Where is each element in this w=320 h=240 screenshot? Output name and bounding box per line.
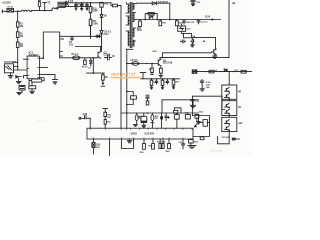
resistor R54 — [200, 137, 204, 140]
jumper J1 — [175, 108, 181, 113]
wire AC input — [2, 10, 7, 12]
transistor Q21 — [225, 94, 230, 99]
svg-text:R14: R14 — [104, 33, 109, 36]
ground — [30, 91, 35, 93]
diode arrow — [195, 122, 199, 126]
wire lower rail — [65, 6, 89, 8]
wire drop to array — [228, 72, 230, 85]
IC3 pin ticks — [90, 128, 192, 139]
svg-text:R4 1.2: R4 1.2 — [72, 53, 80, 56]
node Q — [151, 63, 153, 65]
wire sub-box top — [192, 96, 224, 109]
capacitor C16 — [166, 79, 168, 84]
wire corner feedback — [43, 32, 59, 58]
fuse FU1 — [7, 9, 14, 12]
capacitor C53 — [190, 100, 195, 108]
resistor R2 — [16, 32, 19, 38]
diode D11 — [224, 69, 227, 72]
svg-text:2SC5148: 2SC5148 — [163, 62, 173, 65]
resistor R17 — [173, 79, 175, 80]
resistor R26 — [160, 66, 162, 68]
wire B+ horizontal to Q2 — [160, 57, 229, 59]
diode D6 — [100, 15, 103, 31]
resistor R3 — [16, 42, 19, 47]
posistor cross — [65, 2, 69, 7]
capacitor C41 — [182, 144, 185, 149]
svg-text:+B: +B — [232, 1, 236, 5]
diode D12 box — [178, 26, 186, 31]
wire drop — [92, 58, 94, 73]
svg-text:+B2: +B2 — [238, 122, 243, 125]
transformer bottom edge — [126, 48, 133, 50]
node X — [95, 36, 96, 37]
ground bar left — [127, 139, 132, 143]
fusible resistor R61 — [151, 113, 153, 115]
capacitor C30 — [81, 116, 90, 119]
svg-text:+C20 R20: +C20 R20 — [144, 133, 155, 135]
transformer T1 primary winding — [128, 4, 129, 46]
resistor R10 — [89, 6, 92, 12]
pin 6 — [39, 74, 55, 76]
watermark orange line — [111, 77, 142, 79]
resistor R35 — [195, 114, 199, 118]
wire RC rail — [141, 78, 180, 80]
transistor Q24 — [225, 120, 230, 125]
wire — [228, 99, 230, 100]
node E — [144, 19, 146, 21]
resistor R25 — [151, 64, 153, 69]
svg-text:R43 R44: R43 R44 — [157, 141, 166, 144]
transistor Q2 — [158, 59, 161, 66]
resistor R41 — [143, 144, 146, 150]
svg-text:R5 10: R5 10 — [82, 67, 89, 69]
ground — [150, 85, 152, 89]
wire IC bottom pin — [28, 79, 30, 86]
resistor R34 — [185, 115, 190, 119]
wire top link — [111, 3, 113, 6]
transistor Q1 — [96, 52, 101, 59]
svg-text:IC2 PC817: IC2 PC817 — [4, 61, 17, 64]
svg-text:jiexiantu: jiexiantu — [209, 149, 223, 153]
svg-text:AC220V: AC220V — [2, 1, 11, 4]
wire to Q1 — [60, 57, 96, 59]
svg-text:100u: 100u — [199, 111, 205, 113]
resistor R42 — [152, 144, 155, 150]
pin 5 — [39, 77, 44, 79]
resistor R33 — [175, 115, 180, 120]
node C — [101, 2, 103, 4]
resistor R12 — [101, 1, 103, 3]
node R — [228, 71, 230, 73]
arrow ground — [102, 80, 104, 82]
resistor R5 — [84, 58, 86, 60]
resistor R45 — [168, 144, 171, 149]
svg-text:C30: C30 — [83, 113, 88, 116]
svg-text:1M: 1M — [20, 26, 23, 28]
node W — [90, 36, 92, 38]
capacitor C1 — [75, 3, 78, 8]
capacitor C52 — [197, 116, 201, 124]
wire loop y99.8 — [162, 100, 198, 113]
resistor R1 — [16, 22, 19, 27]
capacitor C12 — [197, 20, 200, 24]
wire D4 top — [137, 2, 153, 4]
wire — [14, 10, 22, 12]
wire secondary bottom — [126, 49, 128, 128]
capacitor C6 — [71, 36, 74, 40]
capacitor C14 — [181, 40, 186, 43]
resistor R51 — [241, 70, 246, 73]
ground — [16, 78, 21, 84]
ground — [159, 73, 162, 77]
wire top bar rail — [121, 112, 198, 114]
fusible resistor FR1 — [73, 56, 80, 60]
degauss box — [58, 2, 65, 7]
resistor R13 — [113, 4, 118, 7]
wire — [89, 118, 91, 128]
wire aux tap — [191, 37, 215, 39]
wire corner — [156, 3, 169, 19]
ground — [212, 55, 217, 59]
wire T-stub — [140, 73, 146, 79]
fusible resistor R60 — [136, 113, 138, 115]
capacitor C15 — [155, 79, 157, 84]
node B — [90, 2, 92, 4]
resistor RS — [148, 13, 154, 15]
ground — [81, 8, 83, 10]
node N — [162, 78, 163, 79]
svg-text:JDzPBH.67.6T: JDzPBH.67.6T — [111, 73, 137, 77]
transistor Q3 — [212, 49, 217, 55]
wire 2W run — [60, 35, 102, 37]
svg-text:1W: 1W — [139, 118, 142, 120]
wire left rail — [17, 11, 19, 70]
capacitor C13 — [191, 1, 195, 4]
pin wires bottom — [94, 139, 191, 156]
resistor R9 — [29, 86, 36, 89]
tick — [60, 52, 63, 57]
capacitor C33 — [161, 117, 163, 119]
ground — [86, 8, 88, 10]
resistor R43 — [159, 144, 161, 149]
diode D10 — [192, 70, 197, 73]
capacitor CT — [43, 3, 47, 11]
wire vertical to Q1 — [101, 47, 103, 52]
node F — [156, 19, 158, 21]
zener ZD1 — [100, 31, 103, 47]
transformer T1 secondary winding — [133, 4, 134, 47]
svg-text:interest: interest — [37, 119, 47, 123]
ground — [8, 73, 13, 78]
diode D7 — [90, 58, 93, 66]
diode D2 — [16, 76, 22, 78]
svg-text:TZ: TZ — [47, 0, 51, 4]
node P — [126, 63, 128, 65]
node K — [93, 57, 95, 59]
wire step up — [57, 8, 58, 9]
diode D4 — [152, 2, 156, 5]
capacitor C11 — [183, 20, 186, 25]
transformer T1 core — [130, 3, 132, 48]
labels group — [2, 0, 243, 154]
transistor Q22 — [225, 103, 230, 108]
wire base Q2 — [139, 63, 158, 65]
resistor R31 — [104, 112, 107, 116]
transformer T1 primary taps — [126, 3, 129, 31]
ground — [172, 85, 174, 89]
transformer T1 secondary taps — [133, 4, 136, 47]
fusible resistor FR0 — [38, 2, 41, 7]
wire — [228, 116, 230, 118]
capacitor C34 — [165, 113, 169, 120]
pin 8 — [39, 57, 43, 59]
wire — [101, 7, 103, 14]
capacitor C9 — [19, 86, 25, 91]
pin 7 — [39, 66, 47, 68]
snubber loop — [145, 14, 157, 20]
resistor R50 — [209, 70, 214, 73]
relay coil loop — [29, 79, 32, 81]
inductor L1 — [21, 10, 30, 11]
capacitor C2 — [80, 3, 83, 8]
ground — [133, 124, 137, 126]
ground — [17, 90, 22, 95]
wire U-loop — [218, 132, 230, 144]
svg-text:C55 R55: C55 R55 — [222, 137, 231, 139]
node J — [43, 57, 45, 59]
resistor R30 loop — [127, 92, 133, 105]
wire — [118, 5, 122, 7]
node A — [17, 11, 19, 13]
transistor array box U3 — [222, 101, 237, 116]
transistor array box U4 — [222, 117, 237, 131]
svg-text:C12 1n: C12 1n — [201, 22, 209, 24]
resistor R11 — [89, 19, 92, 25]
svg-text:VD30: VD30 — [131, 132, 138, 136]
resistor R16 — [162, 79, 164, 80]
wire — [215, 38, 217, 49]
ground — [188, 143, 196, 148]
transistor Q20 — [225, 87, 230, 92]
ground — [200, 84, 204, 91]
svg-text:R23 1W: R23 1W — [186, 22, 195, 24]
svg-text:1M: 1M — [20, 36, 23, 38]
wire long vertical rail — [120, 6, 122, 129]
svg-text:R12: R12 — [104, 4, 109, 6]
svg-text:L2 C5: L2 C5 — [67, 0, 74, 3]
svg-text:450V: 450V — [137, 29, 143, 32]
wire y46 — [76, 47, 101, 52]
transistor Q23 — [225, 109, 230, 114]
svg-text:150K: 150K — [92, 11, 98, 13]
svg-text:4R: 4R — [238, 91, 241, 94]
AC terminal — [2, 10, 4, 13]
node H — [203, 40, 205, 42]
wire opto branch — [14, 61, 18, 63]
ground — [161, 85, 163, 89]
diode D5 — [149, 16, 153, 18]
node D — [101, 46, 103, 48]
svg-text:KA3842: KA3842 — [29, 54, 39, 57]
capacitor C17 — [146, 95, 149, 101]
pin 2 — [24, 76, 28, 78]
resistor R53 — [189, 140, 194, 143]
ground — [191, 43, 195, 47]
inductor L2 — [52, 8, 58, 11]
op-amp IC1 box — [27, 56, 39, 79]
node TZ — [44, 10, 46, 12]
wire link — [90, 26, 92, 37]
svg-text:1M: 1M — [20, 46, 23, 48]
svg-text:D4 FR107: D4 FR107 — [158, 1, 169, 4]
capacitor C8 — [105, 55, 112, 60]
svg-text:FU 3A: FU 3A — [7, 6, 13, 9]
capacitor C13 — [191, 40, 194, 43]
wire — [30, 10, 52, 13]
resistor R20 — [139, 20, 141, 22]
wire B+ vertical — [228, 0, 230, 58]
svg-text:1W: 1W — [155, 118, 158, 120]
wire top rail — [68, 2, 112, 4]
node O — [173, 78, 174, 79]
fusible resistor FR2 — [128, 63, 132, 65]
transistor array box U2 — [222, 85, 237, 99]
svg-text:C1815: C1815 — [104, 55, 111, 57]
node I — [17, 66, 19, 68]
ground — [75, 8, 77, 10]
wire opto to IC — [14, 67, 28, 71]
wire mid — [87, 72, 105, 74]
svg-text:C3 472: C3 472 — [77, 3, 85, 6]
pin 1 — [24, 58, 28, 60]
wire vertical branch — [90, 3, 92, 39]
transistor Q10 — [92, 143, 95, 148]
ground — [142, 125, 146, 127]
resistor R15 — [151, 79, 153, 80]
capacitor C3 — [86, 3, 89, 8]
arrow — [212, 18, 215, 21]
optocoupler IC2 — [5, 64, 14, 73]
IC3 jungle bar — [87, 128, 193, 139]
transistor Q25 — [225, 126, 230, 131]
transistor Q4 box — [184, 33, 192, 37]
wire main HV rail — [134, 19, 221, 21]
wire secondary rail — [193, 71, 252, 73]
node L — [93, 72, 95, 74]
component dark — [232, 138, 236, 141]
capacitor C51 — [191, 96, 195, 115]
capacitor C7 — [53, 75, 58, 84]
ground — [191, 4, 194, 6]
resistor R52 — [203, 120, 207, 127]
op-amp IC1 pin ticks — [27, 58, 39, 77]
svg-text:4G: 4G — [238, 106, 241, 109]
wire pin vertical — [103, 109, 108, 129]
wire loop right of bar — [192, 116, 209, 137]
svg-text:115V: 115V — [205, 17, 211, 19]
wire drive — [162, 53, 211, 58]
svg-text:FR 0.5: FR 0.5 — [131, 60, 139, 62]
svg-text:150K: 150K — [92, 23, 98, 25]
resistor R21 — [159, 20, 161, 21]
resistor R32 — [104, 120, 106, 125]
resistor R8 — [102, 73, 104, 75]
node M — [151, 78, 152, 79]
resistor R22 — [176, 20, 178, 21]
capacitor C50 — [200, 80, 203, 85]
resistor R44 — [162, 144, 164, 149]
resonator X1 — [141, 116, 147, 122]
diode D3 — [97, 35, 100, 38]
